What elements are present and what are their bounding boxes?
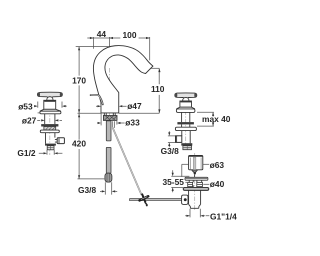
left valve lower flange <box>40 130 59 133</box>
left valve skirt <box>40 109 61 111</box>
arrow 100 right <box>146 37 150 39</box>
left valve body <box>46 133 55 144</box>
svg-text:100: 100 <box>123 30 137 40</box>
ext line spout top <box>76 46 112 48</box>
dimension 420 line <box>78 114 80 179</box>
dimension ø53 <box>34 105 67 107</box>
deck stub left valve <box>38 112 40 114</box>
right valve handle <box>175 93 197 99</box>
right valve body <box>182 131 190 144</box>
right valve skirt <box>176 107 195 109</box>
svg-text:ø40: ø40 <box>210 179 225 189</box>
arrow 170 bottom <box>78 109 80 113</box>
centerline left valve <box>49 92 51 155</box>
centerline drain <box>194 153 196 211</box>
left valve column <box>45 114 55 124</box>
svg-text:ø63: ø63 <box>210 160 225 170</box>
dimension G3/8 right <box>168 136 175 143</box>
right valve washer <box>177 122 194 124</box>
left valve handle end caps <box>37 93 40 97</box>
flexible hose lower segment <box>106 147 111 173</box>
left valve bonnet <box>44 100 56 109</box>
leader 35-55 tab <box>185 181 188 183</box>
drain upper flange <box>185 177 208 180</box>
spout pop-up lever <box>91 95 103 105</box>
right valve bonnet <box>180 101 192 107</box>
drain clamp tabs <box>188 182 193 186</box>
left valve washer <box>41 124 58 126</box>
svg-text:G3/8: G3/8 <box>161 146 179 156</box>
horizontal linkage rod <box>129 199 188 201</box>
drain bottom flange ø40 <box>183 187 209 190</box>
drain funnel <box>192 170 198 173</box>
drain tailpipe <box>189 191 201 209</box>
svg-text:110: 110 <box>151 84 165 94</box>
dimension ø47 arrows <box>96 105 127 107</box>
arrow 100 left <box>109 37 113 39</box>
spout base neck <box>104 113 115 116</box>
right valve thread G3/8 <box>183 146 192 150</box>
right valve lower band <box>181 143 192 145</box>
svg-text:44: 44 <box>97 29 107 39</box>
right valve deck flange <box>175 127 196 130</box>
ext line hose bottom <box>78 178 105 180</box>
ext line deck right <box>119 112 160 114</box>
arrow 170 top <box>78 47 80 51</box>
arrow 110 top <box>158 68 160 72</box>
left valve lower band <box>45 144 56 146</box>
drain knob <box>189 155 203 169</box>
hose end nut <box>105 173 112 182</box>
right valve side port G3/8 <box>176 136 182 143</box>
spout mounting nut <box>103 116 117 121</box>
leader ø63 <box>203 163 209 165</box>
svg-text:ø27: ø27 <box>22 116 37 126</box>
svg-text:max 40: max 40 <box>202 114 231 124</box>
dimension max40 top ext <box>197 111 214 113</box>
ext line spout tip <box>151 67 160 69</box>
ext line deck left <box>78 112 102 114</box>
dimension max40 bottom ext <box>197 125 214 127</box>
dimension G1/2 <box>47 150 54 155</box>
right valve column <box>182 112 190 122</box>
ext line spout base left <box>100 104 102 125</box>
arrow 420 bottom <box>78 175 80 179</box>
dimension 170 line <box>78 47 80 114</box>
centerline right valve <box>185 93 187 151</box>
arrow 110 bottom <box>158 109 160 113</box>
ext ticks ø53 <box>38 102 62 108</box>
ext line 44 left <box>93 37 95 49</box>
ext line spout center <box>109 37 111 48</box>
spout body <box>93 46 152 113</box>
dimension 110 line <box>158 68 160 113</box>
left valve handle hub <box>47 97 53 101</box>
drain rod joint <box>182 195 188 204</box>
left valve handle <box>37 92 62 98</box>
svg-text:170: 170 <box>72 75 86 85</box>
arrow 44 left <box>90 37 94 39</box>
right valve column stub <box>182 124 190 127</box>
right valve handle end caps <box>175 93 178 97</box>
arrow 420 top <box>78 114 80 118</box>
dimension 44/100 line <box>87 37 149 39</box>
drain clamp body <box>189 180 202 187</box>
svg-text:ø53: ø53 <box>18 101 33 111</box>
svg-text:420: 420 <box>72 139 86 149</box>
centerline spout <box>109 68 111 124</box>
dimension ø27 <box>37 119 62 121</box>
dimension ø33 arrows <box>97 122 124 124</box>
pop-up rod stub at tailpiece <box>113 121 115 128</box>
svg-text:G3/8: G3/8 <box>78 185 96 195</box>
ext line 100 right <box>149 37 151 60</box>
dimension G3/8 hose <box>105 182 111 194</box>
flexible hose upper segment <box>106 121 111 141</box>
pop-up rod diagonal <box>113 128 142 195</box>
leader ø40 <box>203 183 209 185</box>
svg-text:35-55: 35-55 <box>162 177 184 187</box>
rod clamp <box>140 194 149 207</box>
dimension G1 1/4 <box>190 209 200 218</box>
svg-text:G1/2: G1/2 <box>17 148 35 158</box>
dimension 35-55 <box>171 176 189 187</box>
right valve handle hub <box>183 97 189 101</box>
svg-text:ø47: ø47 <box>127 101 142 111</box>
svg-text:ø33: ø33 <box>125 118 140 128</box>
left valve side port <box>55 139 57 142</box>
left valve thread G1/2 <box>47 146 54 150</box>
svg-text:G1"1/4: G1"1/4 <box>210 211 237 221</box>
left valve locknut <box>44 127 56 131</box>
